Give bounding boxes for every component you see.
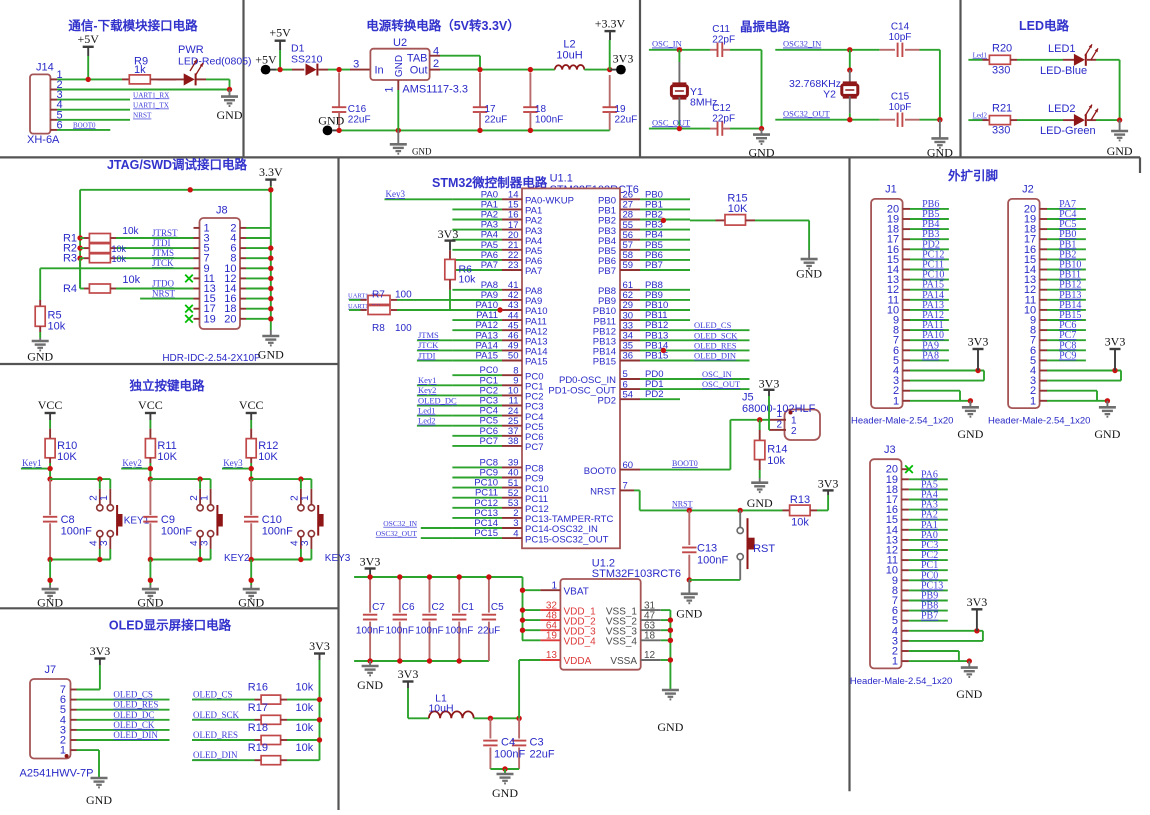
svg-text:10K: 10K	[57, 451, 77, 463]
svg-text:Out: Out	[410, 65, 428, 77]
svg-text:J2: J2	[1022, 184, 1034, 196]
svg-text:LED-Green: LED-Green	[1040, 125, 1096, 137]
svg-text:Led1: Led1	[418, 405, 435, 415]
svg-text:GND: GND	[927, 146, 953, 160]
svg-text:JTMS: JTMS	[152, 248, 174, 258]
svg-text:KEY3: KEY3	[325, 553, 351, 564]
svg-text:C4: C4	[501, 737, 515, 749]
svg-text:+5V: +5V	[269, 26, 291, 40]
svg-text:VCC: VCC	[38, 398, 63, 412]
svg-text:R3: R3	[63, 253, 77, 265]
svg-text:JTCK: JTCK	[418, 340, 439, 350]
svg-text:OSC32_OUT: OSC32_OUT	[783, 108, 831, 118]
svg-text:R16: R16	[248, 682, 268, 694]
svg-text:330: 330	[992, 64, 1010, 76]
svg-text:PC15-OSC32_OUT: PC15-OSC32_OUT	[525, 534, 609, 545]
svg-text:19: 19	[546, 631, 558, 642]
svg-text:13: 13	[546, 650, 558, 661]
svg-text:GND: GND	[357, 678, 383, 692]
svg-text:22uF: 22uF	[485, 115, 508, 126]
svg-text:OLED_RES: OLED_RES	[694, 340, 737, 350]
svg-text:NRST: NRST	[672, 500, 693, 509]
svg-text:4: 4	[189, 540, 200, 546]
svg-text:R20: R20	[992, 42, 1012, 54]
svg-text:4: 4	[89, 540, 100, 546]
svg-text:10k: 10k	[112, 254, 127, 264]
svg-text:C7: C7	[372, 602, 385, 613]
svg-text:RST: RST	[753, 543, 775, 555]
svg-text:GND: GND	[956, 687, 982, 701]
svg-text:BOOT0: BOOT0	[672, 459, 698, 468]
svg-text:18: 18	[535, 104, 547, 115]
svg-text:OSC_OUT: OSC_OUT	[652, 117, 691, 127]
svg-text:OSC32_IN: OSC32_IN	[783, 39, 821, 49]
svg-text:R19: R19	[248, 742, 268, 754]
svg-text:KEY2: KEY2	[224, 553, 250, 564]
svg-text:C9: C9	[161, 514, 175, 526]
svg-text:PA15: PA15	[525, 357, 548, 368]
svg-text:10uH: 10uH	[428, 702, 453, 714]
svg-text:J8: J8	[216, 205, 228, 217]
svg-text:22uF: 22uF	[478, 626, 501, 637]
svg-text:330: 330	[992, 125, 1010, 137]
svg-text:10k: 10k	[122, 274, 140, 286]
svg-text:1: 1	[99, 495, 110, 501]
svg-text:17: 17	[485, 104, 497, 115]
svg-text:OLED_DIN: OLED_DIN	[113, 730, 158, 740]
svg-text:GND: GND	[1107, 144, 1133, 158]
svg-text:JTMS: JTMS	[418, 330, 439, 340]
svg-text:+5V: +5V	[255, 53, 277, 67]
svg-text:3.3V: 3.3V	[259, 165, 283, 179]
svg-text:3: 3	[353, 59, 359, 71]
svg-text:R17: R17	[248, 702, 268, 714]
svg-text:VSSA: VSSA	[610, 656, 637, 667]
svg-text:59: 59	[623, 260, 634, 271]
svg-text:LED1: LED1	[1048, 43, 1076, 55]
svg-text:PWR: PWR	[178, 44, 204, 56]
svg-text:10k: 10k	[296, 682, 314, 694]
svg-text:J5: J5	[742, 392, 754, 404]
svg-text:C12: C12	[712, 103, 731, 114]
svg-text:GND: GND	[657, 720, 683, 734]
svg-text:12: 12	[644, 650, 656, 661]
svg-text:20: 20	[224, 313, 236, 325]
svg-text:电源转换电路（5V转3.3V）: 电源转换电路（5V转3.3V）	[366, 18, 520, 33]
svg-text:10k: 10k	[791, 517, 809, 529]
svg-text:100nF: 100nF	[262, 526, 293, 538]
svg-text:NRST: NRST	[590, 487, 616, 498]
svg-text:3: 3	[199, 540, 210, 546]
svg-text:Led1: Led1	[973, 51, 988, 59]
svg-text:C3: C3	[530, 737, 544, 749]
svg-text:1: 1	[551, 580, 557, 591]
svg-text:PD2: PD2	[598, 395, 616, 406]
svg-text:PA7: PA7	[525, 266, 542, 277]
svg-text:LED2: LED2	[1048, 103, 1076, 115]
svg-text:19: 19	[204, 313, 216, 325]
svg-text:1k: 1k	[134, 64, 146, 76]
svg-text:C13: C13	[697, 543, 717, 555]
svg-text:VDD_4: VDD_4	[564, 637, 597, 648]
svg-text:R7: R7	[372, 289, 385, 300]
svg-text:OLED_DC: OLED_DC	[418, 395, 457, 405]
svg-text:R8: R8	[372, 323, 385, 334]
svg-text:GND: GND	[747, 496, 773, 510]
svg-text:1: 1	[300, 495, 311, 501]
svg-text:Key1: Key1	[22, 458, 41, 468]
svg-text:3V3: 3V3	[398, 667, 419, 681]
svg-text:JTRST: JTRST	[152, 228, 178, 238]
svg-text:10uH: 10uH	[556, 50, 582, 62]
svg-text:23: 23	[508, 260, 519, 271]
svg-text:GND: GND	[27, 350, 53, 364]
svg-text:J14: J14	[36, 62, 54, 74]
svg-text:GND: GND	[137, 596, 163, 610]
svg-text:R4: R4	[63, 283, 77, 295]
svg-text:3V3: 3V3	[818, 477, 839, 491]
svg-text:38: 38	[508, 436, 519, 447]
svg-text:JTDI: JTDI	[152, 238, 171, 248]
svg-text:VSS_4: VSS_4	[606, 637, 638, 648]
svg-text:PB7: PB7	[598, 266, 616, 277]
svg-text:19: 19	[615, 104, 627, 115]
svg-text:SS210: SS210	[291, 54, 323, 66]
svg-text:A2541HWV-7P: A2541HWV-7P	[20, 768, 94, 780]
svg-text:晶振电路: 晶振电路	[740, 19, 791, 34]
svg-text:PC7: PC7	[525, 442, 543, 453]
svg-text:NRST: NRST	[152, 288, 176, 298]
svg-text:VCC: VCC	[138, 398, 163, 412]
svg-text:VBAT: VBAT	[564, 586, 589, 597]
svg-text:OSC_IN: OSC_IN	[702, 369, 732, 379]
svg-text:PB15: PB15	[593, 357, 616, 368]
svg-text:C10: C10	[262, 514, 282, 526]
svg-text:Header-Male-2.54_1x20: Header-Male-2.54_1x20	[988, 416, 1090, 427]
svg-text:PB7: PB7	[921, 611, 938, 622]
svg-text:GND: GND	[492, 786, 518, 800]
svg-text:10pF: 10pF	[889, 102, 912, 113]
svg-text:100nF: 100nF	[356, 626, 384, 637]
svg-text:100: 100	[395, 289, 412, 300]
svg-text:GND: GND	[37, 596, 63, 610]
svg-text:10k: 10k	[296, 722, 314, 734]
svg-text:OLED_SCK: OLED_SCK	[193, 710, 240, 720]
svg-text:4: 4	[513, 528, 518, 539]
svg-text:100nF: 100nF	[697, 555, 728, 567]
svg-text:C1: C1	[461, 602, 474, 613]
svg-text:1: 1	[199, 495, 210, 501]
svg-text:22uF: 22uF	[348, 115, 371, 126]
svg-text:3V3: 3V3	[759, 377, 780, 391]
svg-text:GND: GND	[258, 348, 284, 362]
svg-text:UART1_RX: UART1_RX	[133, 91, 170, 99]
svg-text:OLED_DC: OLED_DC	[113, 710, 154, 720]
svg-text:22uF: 22uF	[615, 115, 638, 126]
svg-text:JTCK: JTCK	[152, 258, 174, 268]
svg-text:U2: U2	[393, 37, 407, 49]
svg-text:22pF: 22pF	[712, 114, 735, 125]
svg-text:3: 3	[300, 540, 311, 546]
svg-text:22pF: 22pF	[712, 35, 735, 46]
svg-text:7: 7	[623, 481, 628, 492]
svg-text:HDR-IDC-2.54-2X10P: HDR-IDC-2.54-2X10P	[162, 353, 261, 364]
svg-text:GND: GND	[676, 607, 702, 621]
svg-text:Led2: Led2	[418, 416, 435, 426]
svg-text:GND: GND	[1094, 427, 1120, 441]
svg-text:100: 100	[395, 323, 412, 334]
svg-text:10k: 10k	[48, 321, 66, 333]
svg-text:OLED_CS: OLED_CS	[193, 690, 233, 700]
svg-text:10k: 10k	[122, 226, 139, 237]
svg-text:GND: GND	[749, 146, 775, 160]
svg-text:60: 60	[623, 460, 634, 471]
svg-text:2: 2	[89, 495, 100, 501]
svg-text:3V3: 3V3	[309, 639, 330, 653]
svg-text:XH-6A: XH-6A	[27, 134, 60, 146]
svg-text:22uF: 22uF	[530, 749, 555, 761]
svg-text:OSC_OUT: OSC_OUT	[702, 379, 741, 389]
svg-text:OLED_DIN: OLED_DIN	[193, 750, 238, 760]
svg-text:GND: GND	[394, 55, 405, 77]
svg-text:VCC: VCC	[239, 398, 264, 412]
svg-text:STM32F103RCT6: STM32F103RCT6	[592, 568, 681, 580]
svg-text:100nF: 100nF	[535, 115, 563, 126]
svg-text:OSC32_IN: OSC32_IN	[383, 519, 417, 528]
svg-text:OSC32_OUT: OSC32_OUT	[376, 529, 418, 538]
svg-text:JTDI: JTDI	[418, 350, 436, 360]
svg-text:Key1: Key1	[418, 375, 436, 385]
svg-text:3V3: 3V3	[90, 644, 111, 658]
svg-text:OSC_IN: OSC_IN	[652, 39, 682, 49]
svg-text:3V3: 3V3	[360, 555, 381, 569]
svg-text:3: 3	[99, 540, 110, 546]
svg-text:2: 2	[290, 495, 301, 501]
svg-text:OLED_SCK: OLED_SCK	[694, 330, 738, 340]
svg-text:Header-Male-2.54_1x20: Header-Male-2.54_1x20	[851, 416, 953, 427]
svg-text:OLED_RES: OLED_RES	[193, 730, 238, 740]
svg-text:GND: GND	[217, 108, 243, 122]
svg-text:GND: GND	[412, 147, 432, 157]
svg-text:10pF: 10pF	[889, 32, 912, 43]
svg-text:R14: R14	[767, 444, 787, 456]
svg-text:Led2: Led2	[973, 112, 988, 120]
svg-text:OLED_RES: OLED_RES	[113, 700, 158, 710]
svg-text:BOOT0: BOOT0	[73, 121, 96, 129]
svg-text:PC9: PC9	[1059, 350, 1076, 361]
svg-text:Y2: Y2	[823, 89, 836, 101]
svg-text:OLED_DIN: OLED_DIN	[694, 351, 736, 361]
svg-text:JTAG/SWD调试接口电路: JTAG/SWD调试接口电路	[107, 157, 248, 172]
svg-text:GND: GND	[957, 427, 983, 441]
svg-text:54: 54	[623, 389, 634, 400]
svg-text:3V3: 3V3	[968, 335, 989, 349]
svg-text:BOOT0: BOOT0	[584, 466, 616, 477]
svg-text:Key2: Key2	[122, 458, 141, 468]
svg-text:1: 1	[892, 656, 898, 668]
svg-text:3V3: 3V3	[1105, 335, 1126, 349]
svg-text:+5V: +5V	[77, 32, 99, 46]
svg-text:UART1_TX: UART1_TX	[133, 102, 170, 110]
svg-text:C11: C11	[712, 24, 730, 35]
svg-text:OLED_CS: OLED_CS	[694, 320, 732, 330]
svg-text:2: 2	[776, 419, 782, 430]
svg-text:1: 1	[791, 416, 797, 427]
svg-text:OLED_CK: OLED_CK	[113, 720, 154, 730]
svg-text:3V3: 3V3	[613, 52, 634, 66]
svg-text:10k: 10k	[296, 742, 314, 754]
svg-text:3V3: 3V3	[967, 595, 988, 609]
svg-text:18: 18	[644, 631, 656, 642]
svg-text:Header-Male-2.54_1x20: Header-Male-2.54_1x20	[850, 676, 952, 687]
svg-text:C15: C15	[891, 92, 910, 103]
svg-text:GND: GND	[796, 267, 822, 281]
svg-text:1: 1	[384, 86, 396, 92]
svg-text:C2: C2	[432, 602, 445, 613]
svg-text:TAB: TAB	[407, 53, 428, 65]
svg-text:10K: 10K	[728, 203, 748, 215]
svg-text:独立按键电路: 独立按键电路	[128, 378, 205, 393]
svg-text:OLED_CS: OLED_CS	[113, 690, 153, 700]
svg-text:C14: C14	[891, 22, 910, 33]
svg-text:外扩引脚: 外扩引脚	[947, 168, 998, 183]
svg-text:GND: GND	[238, 596, 264, 610]
svg-text:NRST: NRST	[133, 112, 152, 120]
svg-text:LED-Red(0805): LED-Red(0805)	[178, 56, 252, 68]
svg-text:100nF: 100nF	[386, 626, 414, 637]
svg-text:Key3: Key3	[386, 189, 406, 199]
svg-text:100nF: 100nF	[61, 526, 92, 538]
svg-text:PA8: PA8	[922, 350, 939, 361]
svg-text:100nF: 100nF	[161, 526, 192, 538]
svg-text:100nF: 100nF	[445, 626, 473, 637]
svg-text:10k: 10k	[459, 274, 477, 286]
svg-text:JTDO: JTDO	[152, 278, 174, 288]
svg-text:通信-下载模块接口电路: 通信-下载模块接口电路	[68, 18, 198, 33]
svg-text:100nF: 100nF	[415, 626, 443, 637]
svg-text:10k: 10k	[112, 244, 127, 254]
svg-text:C16: C16	[348, 104, 367, 115]
svg-text:LED电路: LED电路	[1019, 18, 1070, 33]
svg-text:OLED显示屏接口电路: OLED显示屏接口电路	[109, 618, 232, 633]
svg-text:36: 36	[623, 351, 634, 362]
svg-text:R21: R21	[992, 103, 1012, 115]
svg-text:U1.1: U1.1	[550, 173, 573, 185]
svg-text:2: 2	[433, 58, 439, 70]
svg-text:2: 2	[189, 495, 200, 501]
svg-text:2: 2	[791, 426, 797, 437]
svg-text:J1: J1	[885, 184, 897, 196]
svg-text:10K: 10K	[258, 451, 278, 463]
svg-text:R13: R13	[790, 494, 810, 506]
svg-text:J3: J3	[884, 444, 896, 456]
svg-text:10K: 10K	[157, 451, 177, 463]
svg-text:1: 1	[776, 409, 782, 420]
svg-text:1: 1	[893, 395, 899, 407]
svg-text:C6: C6	[402, 602, 415, 613]
svg-text:C5: C5	[491, 602, 504, 613]
svg-text:Key3: Key3	[223, 458, 243, 468]
svg-text:C8: C8	[61, 514, 75, 526]
svg-text:GND: GND	[318, 114, 344, 128]
svg-text:10k: 10k	[767, 455, 785, 467]
svg-text:50: 50	[508, 351, 519, 362]
svg-text:J7: J7	[45, 664, 57, 676]
svg-text:Key2: Key2	[418, 385, 436, 395]
svg-text:3V3: 3V3	[438, 227, 459, 241]
svg-text:10k: 10k	[296, 702, 314, 714]
svg-text:AMS1117-3.3: AMS1117-3.3	[402, 84, 468, 96]
svg-text:LED-Blue: LED-Blue	[1040, 65, 1087, 77]
svg-text:4: 4	[290, 540, 301, 546]
svg-text:In: In	[375, 65, 384, 77]
svg-text:R18: R18	[248, 722, 268, 734]
svg-text:GND: GND	[86, 793, 112, 807]
svg-text:1: 1	[1030, 395, 1036, 407]
svg-text:VDDA: VDDA	[564, 656, 592, 667]
svg-text:+3.3V: +3.3V	[595, 17, 626, 31]
svg-text:100nF: 100nF	[494, 749, 525, 761]
